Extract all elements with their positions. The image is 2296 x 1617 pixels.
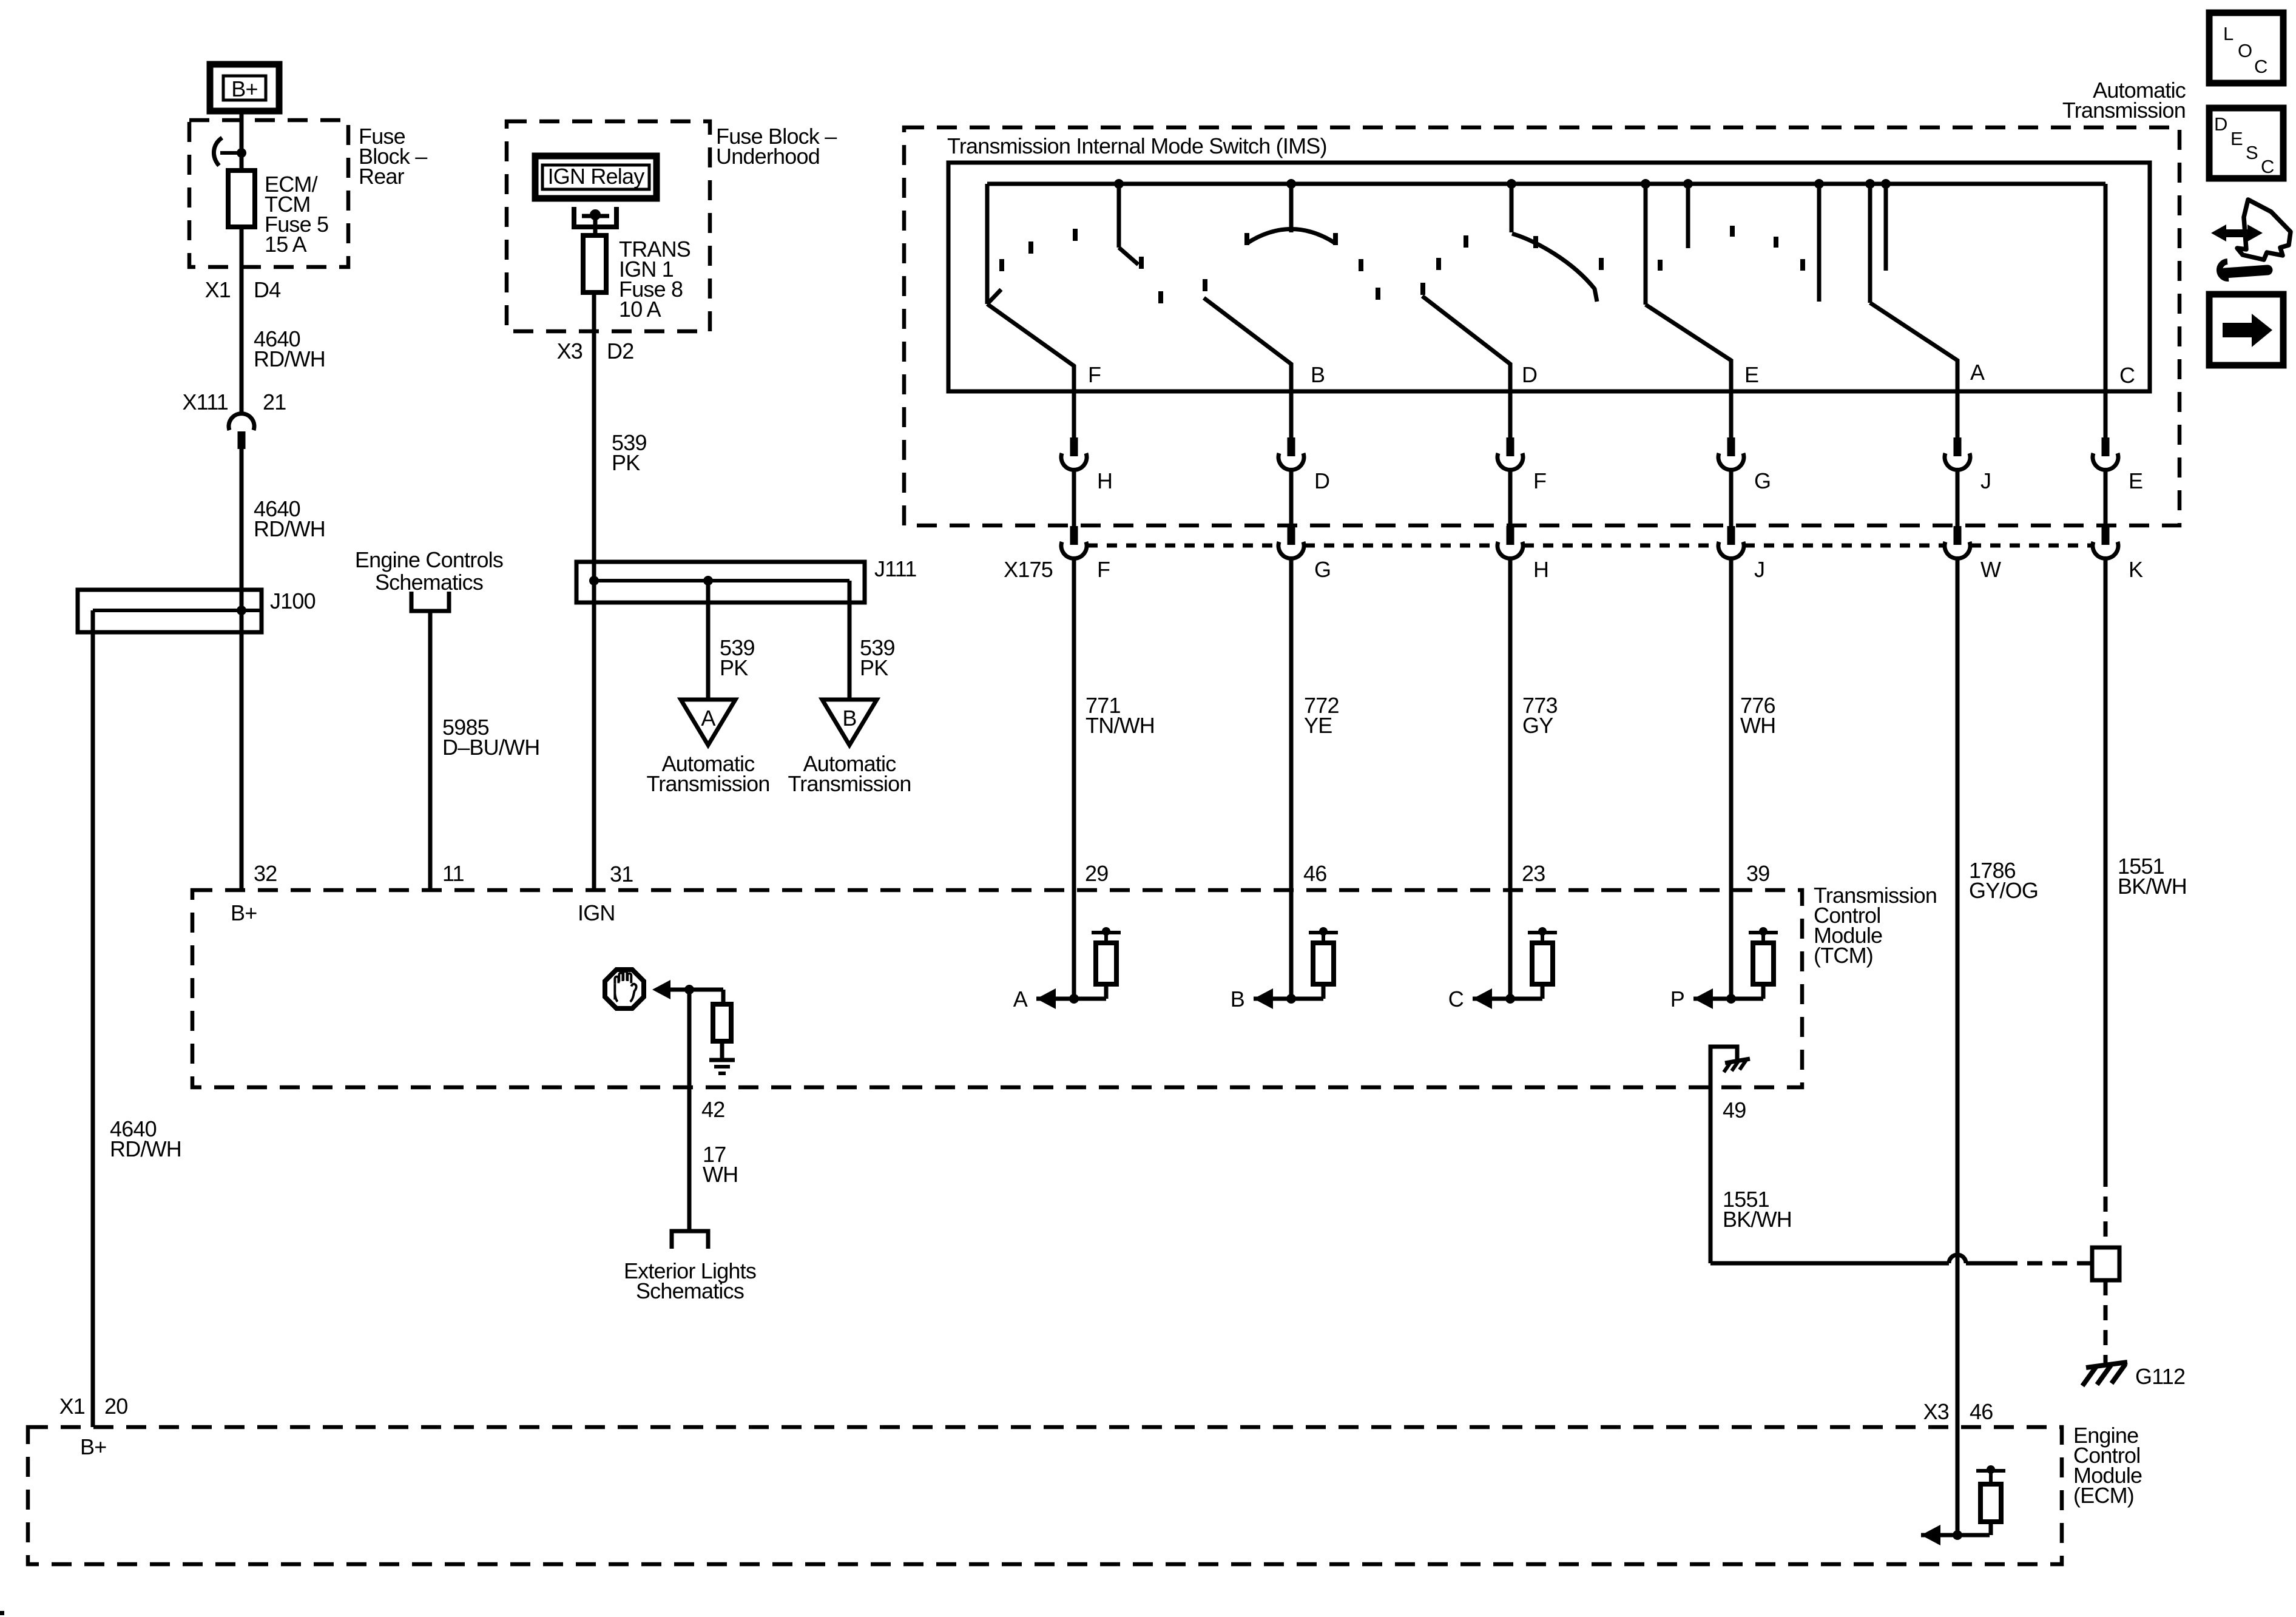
node junction J100 — [237, 606, 246, 615]
wire label 4640 RD/WH — [110, 1116, 181, 1161]
svg-text:K: K — [2129, 557, 2143, 582]
engine control module ECM dashed box — [28, 1427, 2062, 1564]
resistor element ECM — [1976, 1469, 2005, 1473]
svg-text:IGN: IGN — [578, 900, 615, 925]
TCM internal circuit element pin B — [1289, 890, 1294, 999]
transmission internal mode switch IMS box — [948, 163, 2150, 391]
svg-text:(TCM): (TCM) — [1814, 943, 1873, 968]
wire label 539 PK — [612, 430, 647, 475]
IMS short finger — [1686, 184, 1690, 248]
svg-text:P: P — [1670, 987, 1684, 1011]
fuse F8 TRANS IGN 1 10A — [583, 235, 606, 292]
wire X175 H to TCM pin 23, circuit 773 GY — [1508, 558, 1513, 890]
IMS switch blade to pin B — [1204, 298, 1291, 391]
relay output terminal bracket — [574, 207, 616, 227]
resistor element C — [1528, 931, 1557, 934]
node junction at B+ feed — [237, 148, 246, 158]
icon box DESC — [2209, 108, 2283, 178]
svg-text:J100: J100 — [270, 589, 316, 613]
svg-text:D: D — [1522, 362, 1537, 387]
chassis ground symbol inside TCM — [1725, 1059, 1750, 1063]
page artifact dot — [0, 1611, 4, 1615]
branch wire J100 to ECM pin 20 — [91, 610, 95, 1427]
wire X175 W circuit 1786 GY/OG to ECM — [1956, 558, 1960, 1427]
wire X175 K circuit 1551 BK/WH to ground — [2104, 558, 2108, 1172]
wire fuse 5 to connector X111 — [240, 227, 244, 414]
icon box LOC — [2209, 13, 2283, 83]
svg-text:X3: X3 — [1923, 1399, 1949, 1424]
node bus junction x=2782 — [1683, 179, 1693, 189]
svg-text:29: 29 — [1085, 861, 1108, 886]
connector pin G — [1727, 437, 1735, 456]
resistor element A — [1092, 931, 1121, 934]
TCM internal circuit element pin C — [1508, 890, 1513, 999]
in-line connector X111 pin 21 — [182, 390, 286, 414]
svg-text:B+: B+ — [80, 1434, 106, 1459]
node bus junction x=1844 — [1114, 179, 1124, 189]
IMS section A fingers — [1817, 184, 1822, 302]
IMS section B center finger — [1289, 184, 1294, 232]
wire label 32 at TCM — [254, 861, 277, 886]
IMS contact ticks section F — [999, 259, 1004, 271]
IMS pin letters — [1088, 360, 2135, 388]
svg-text:H: H — [1533, 557, 1548, 582]
node bus junction x=2491 — [1507, 179, 1516, 189]
svg-text:J: J — [1754, 557, 1764, 582]
icon glove with double arrow and wrench — [2211, 224, 2226, 241]
svg-text:RD/WH: RD/WH — [254, 516, 325, 541]
svg-text:X3: X3 — [557, 339, 582, 363]
IMS switch blade to pin E — [1646, 305, 1731, 391]
svg-text:Rear: Rear — [359, 164, 405, 189]
connector pin D — [1288, 437, 1295, 456]
connector X175 dotted harness line — [1087, 544, 2092, 548]
pin label X3 D2 — [557, 339, 634, 363]
svg-text:C: C — [2261, 156, 2274, 177]
svg-text:15 A: 15 A — [265, 232, 307, 257]
relay IGN Relay — [535, 156, 657, 198]
svg-text:46: 46 — [1970, 1399, 1993, 1424]
wire circuit 1551 BK/WH from pin 49 — [1723, 1187, 1792, 1232]
ground connector eyelet — [2092, 1247, 2119, 1280]
IMS section D common finger — [1510, 184, 1514, 232]
wire B+ to Fuse 5 — [240, 111, 244, 170]
wire J111 to off-page B — [848, 581, 852, 700]
splice pack J111 — [576, 562, 865, 603]
icon box arrow — [2209, 294, 2283, 365]
svg-text:Engine Controls: Engine Controls — [355, 547, 503, 572]
svg-text:D–BU/WH: D–BU/WH — [442, 735, 539, 760]
svg-text:E: E — [2129, 468, 2142, 493]
connector X175 pin H — [1507, 526, 1514, 545]
wire hop over 1786 wire — [1949, 1255, 1966, 1263]
off-page connector triangle B Automatic Transmission — [822, 700, 877, 745]
automatic transmission dashed enclosure — [904, 127, 2180, 525]
svg-text:G: G — [1314, 557, 1331, 582]
svg-text:IGN Relay: IGN Relay — [548, 164, 645, 189]
fuse F5 ECM/TCM 15A — [228, 170, 255, 227]
wire relay to fuse 8 — [593, 216, 598, 235]
connector X175 pin K — [2102, 526, 2110, 545]
svg-text:YE: YE — [1304, 713, 1332, 738]
svg-text:J: J — [1980, 468, 1991, 493]
power symbol B+ — [210, 64, 279, 111]
wire fuse 8 to splice J111 and TCM pin 31 — [592, 292, 596, 890]
IMS wiper arc section D — [1512, 234, 1597, 302]
svg-text:X111: X111 — [182, 390, 228, 414]
svg-text:GY/OG: GY/OG — [1969, 878, 2038, 903]
wire X175 G to TCM pin 46, circuit 772 YE — [1289, 558, 1294, 890]
svg-text:49: 49 — [1723, 1098, 1746, 1122]
svg-text:F: F — [1533, 468, 1546, 493]
earth ground symbol — [709, 1058, 735, 1062]
svg-text:C: C — [2119, 363, 2135, 388]
svg-text:PK: PK — [860, 655, 888, 680]
wire Engine Controls to TCM pin 11 — [428, 611, 433, 890]
svg-text:D4: D4 — [254, 277, 280, 302]
IMS section F common finger — [985, 184, 990, 304]
connector X175 pin F — [1070, 526, 1078, 545]
svg-text:Transmission: Transmission — [646, 771, 769, 796]
svg-text:B+: B+ — [231, 900, 257, 925]
wire label 4640 RD/WH — [254, 326, 325, 371]
node bus junction x=2712 — [1641, 179, 1650, 189]
splice pack J100 — [78, 590, 262, 632]
svg-text:TN/WH: TN/WH — [1086, 713, 1155, 738]
node junction J111 left — [589, 576, 599, 586]
wire label 5985 D-BU/WH — [442, 715, 539, 760]
IMS common bus — [987, 182, 2105, 186]
svg-text:X1: X1 — [59, 1394, 85, 1419]
resistor element B — [1309, 931, 1338, 934]
connector pin E — [2102, 437, 2110, 456]
svg-text:31: 31 — [610, 862, 633, 886]
svg-text:A: A — [1013, 987, 1028, 1011]
svg-text:D: D — [1314, 468, 1329, 493]
wire TCM pin 42 to exterior lights, circuit 17 WH — [687, 990, 692, 1231]
connector X175 pin W — [1954, 526, 1962, 545]
svg-text:32: 32 — [254, 861, 277, 886]
pin label X1 20 — [59, 1394, 128, 1419]
svg-text:X175: X175 — [1004, 557, 1053, 582]
connector pin H — [1070, 437, 1078, 456]
IMS section B finger with bent tip — [1117, 184, 1121, 248]
svg-text:D: D — [2214, 113, 2227, 135]
TCM internal circuit element pin A — [1072, 890, 1076, 999]
node bus junction x=3082 — [1865, 179, 1875, 189]
connector X175 pin J — [1727, 526, 1735, 545]
svg-text:20: 20 — [104, 1394, 127, 1419]
node junction J111 middle tap — [703, 576, 713, 586]
IMS switch blade to pin F — [987, 304, 1074, 391]
svg-text:PK: PK — [720, 655, 748, 680]
wire label 31 at TCM — [610, 862, 633, 886]
svg-text:F: F — [1097, 557, 1110, 582]
svg-text:S: S — [2246, 142, 2258, 163]
svg-text:B: B — [1231, 987, 1244, 1011]
svg-text:F: F — [1088, 362, 1101, 387]
svg-text:BK/WH: BK/WH — [2118, 874, 2187, 899]
svg-text:WH: WH — [703, 1162, 738, 1187]
IMS contact ticks section B — [1158, 291, 1163, 303]
IMS switch blade to pin D — [1422, 296, 1510, 391]
svg-text:J111: J111 — [874, 556, 917, 581]
svg-text:WH: WH — [1740, 713, 1775, 738]
svg-text:23: 23 — [1522, 861, 1545, 886]
node bus junction x=3108 — [1881, 179, 1891, 189]
svg-text:A: A — [701, 706, 715, 731]
hand glyph — [615, 971, 636, 1002]
svg-text:O: O — [2238, 40, 2252, 61]
svg-text:H: H — [1097, 468, 1112, 493]
IMS wiper arc section B — [1247, 229, 1335, 244]
IMS switch blade to pin A — [1870, 303, 1957, 391]
resistor to ground inside TCM — [721, 990, 726, 1004]
svg-text:C: C — [2254, 56, 2267, 77]
svg-text:D2: D2 — [607, 339, 633, 363]
TCM internal circuit element pin P — [1729, 890, 1734, 999]
transmission control module TCM dashed box — [192, 890, 1802, 1087]
svg-text:G112: G112 — [2135, 1364, 2185, 1389]
arrow to stop hand — [652, 980, 670, 999]
node bus junction x=2998 — [1814, 179, 1824, 189]
svg-text:42: 42 — [701, 1097, 724, 1122]
svg-text:Schematics: Schematics — [636, 1278, 744, 1303]
connector terminal hook in fuse block — [214, 138, 222, 166]
svg-text:B: B — [1311, 362, 1325, 387]
svg-text:E: E — [1744, 362, 1758, 387]
svg-text:GY: GY — [1522, 713, 1553, 738]
fuse block rear box — [189, 120, 348, 267]
wire J111 to off-page A — [706, 581, 711, 700]
TCM pin 49 ground trace — [1710, 1047, 1737, 1263]
svg-text:G: G — [1754, 468, 1771, 493]
connector X175 pin G — [1288, 526, 1295, 545]
IMS contact ticks section E — [1658, 260, 1663, 271]
wire label 4640 RD/WH — [254, 496, 325, 541]
connector pin J — [1954, 437, 1962, 456]
ground G112 chassis ground symbol — [2086, 1362, 2127, 1368]
svg-text:W: W — [1980, 557, 2001, 582]
svg-text:C: C — [1448, 987, 1464, 1011]
svg-text:Transmission: Transmission — [2062, 98, 2186, 123]
svg-text:10 A: 10 A — [619, 297, 661, 322]
svg-text:A: A — [1970, 360, 1985, 385]
svg-text:Underhood: Underhood — [716, 144, 820, 169]
svg-text:BK/WH: BK/WH — [1723, 1207, 1792, 1232]
resistor element P — [1749, 931, 1778, 934]
pin label X3 46 — [1923, 1399, 1993, 1424]
wire X175 F to TCM pin 29, circuit 771 TN/WH — [1072, 558, 1076, 890]
wire X111 to splice J100 — [240, 449, 244, 890]
connector pin F — [1507, 437, 1514, 456]
fuse block underhood box — [507, 121, 710, 331]
svg-text:RD/WH: RD/WH — [254, 346, 325, 371]
wire X175 J to TCM pin 39, circuit 776 WH — [1729, 558, 1734, 890]
dashed ground lead from X175 K — [2104, 1172, 2108, 1247]
svg-text:B+: B+ — [231, 76, 257, 101]
svg-text:X1: X1 — [205, 277, 231, 302]
svg-text:PK: PK — [612, 450, 640, 475]
IMS section E common finger — [1644, 184, 1648, 305]
svg-text:(ECM): (ECM) — [2073, 1483, 2134, 1508]
svg-text:L: L — [2223, 23, 2234, 44]
svg-text:RD/WH: RD/WH — [110, 1136, 181, 1161]
svg-text:Schematics: Schematics — [375, 570, 483, 595]
IMS contact ticks section D — [1436, 258, 1441, 270]
off-page connector triangle A Automatic Transmission — [681, 700, 735, 745]
IMS pin C vertical — [2104, 184, 2108, 391]
svg-text:39: 39 — [1746, 861, 1769, 886]
ECM internal circuit element — [1956, 1427, 1960, 1535]
off-page reference Engine Controls Schematics — [355, 547, 503, 595]
svg-text:21: 21 — [263, 390, 286, 414]
off-page reference Exterior Lights Schematics — [672, 1231, 708, 1249]
stop hand symbol octagon — [605, 970, 644, 1008]
svg-text:Transmission: Transmission — [788, 771, 911, 796]
IMS pin wires to internal connectors — [1072, 391, 1076, 437]
pin label X1 D4 — [205, 277, 281, 302]
svg-text:Transmission Internal Mode Swi: Transmission Internal Mode Switch (IMS) — [947, 133, 1327, 158]
node bus junction x=2128 — [1286, 179, 1296, 189]
svg-text:B: B — [842, 706, 856, 731]
svg-text:11: 11 — [442, 861, 464, 886]
svg-text:E: E — [2230, 128, 2243, 149]
svg-text:46: 46 — [1303, 861, 1326, 886]
